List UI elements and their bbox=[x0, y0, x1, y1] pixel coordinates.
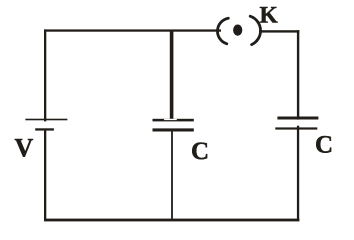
capacitor C right bottom plate bbox=[275, 127, 317, 129]
svg-text:C: C bbox=[191, 138, 209, 165]
switch K left contact arc bbox=[217, 18, 228, 44]
capacitor C middle bottom plate bbox=[153, 128, 194, 131]
capacitor C middle top plate bbox=[153, 119, 194, 122]
switch K ball contact dot bbox=[233, 25, 242, 36]
svg-text:K: K bbox=[260, 2, 279, 28]
wire left vertical upper bbox=[44, 29, 46, 121]
svg-text:V: V bbox=[15, 134, 34, 163]
wire top-left horizontal bbox=[44, 29, 221, 31]
wire top-right horizontal bbox=[259, 30, 299, 32]
capacitor C right top plate bbox=[277, 117, 318, 120]
wire middle vertical thick bbox=[170, 31, 174, 119]
switch K right contact arc bbox=[250, 16, 260, 44]
wire right vertical lower bbox=[297, 126, 299, 221]
wire bottom horizontal bbox=[44, 219, 299, 222]
battery V long plate bbox=[25, 119, 67, 121]
battery V short plate bbox=[35, 128, 54, 130]
wire middle vertical lower thin bbox=[171, 132, 173, 220]
wire right vertical upper bbox=[297, 30, 299, 119]
svg-text:C: C bbox=[315, 131, 333, 158]
wire left vertical lower bbox=[44, 130, 46, 222]
